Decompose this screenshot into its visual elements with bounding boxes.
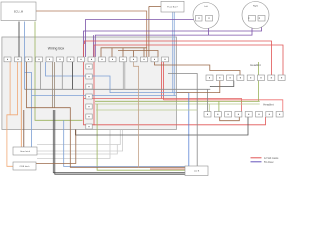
svg-text:Headlmt: Headlmt <box>250 63 261 67</box>
svg-text:Headlmt: Headlmt <box>263 102 274 106</box>
svg-text:ECU_M: ECU_M <box>14 9 23 13</box>
svg-text:xxx B: xxx B <box>194 171 200 173</box>
svg-text:Fuse Box?: Fuse Box? <box>167 7 178 9</box>
svg-text:Gear latch: Gear latch <box>20 150 31 153</box>
svg-text:Left: Left <box>204 5 208 8</box>
svg-text:Right: Right <box>253 5 258 8</box>
svg-text:ODB latch: ODB latch <box>20 165 31 168</box>
svg-text:5V driver: 5V driver <box>264 161 274 164</box>
svg-text:12 Volt mains: 12 Volt mains <box>264 157 279 160</box>
svg-text:Wiring Box: Wiring Box <box>48 47 65 51</box>
